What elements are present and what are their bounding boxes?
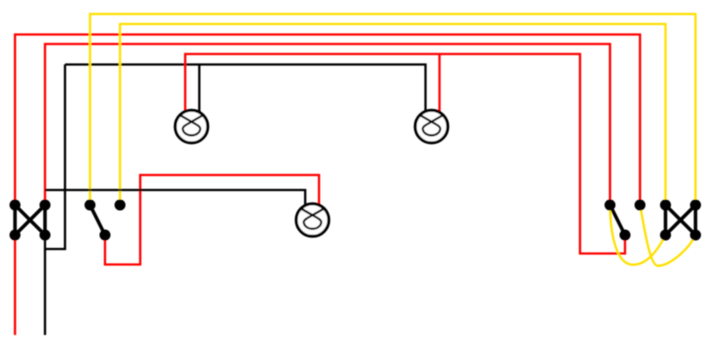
wire: red supply drop from crossover S1 (14, 235, 16, 335)
crossover switch S4 (666, 205, 696, 235)
wire: black neutral rail to upper lamps (65, 65, 426, 118)
two-way switch S2 lever (90, 205, 105, 235)
two-way switch S2 terminals (85, 200, 126, 241)
two-way switch S3 lever (610, 205, 625, 235)
wire: yellow corresponding wire 2 (120, 24, 666, 205)
wire: red branch riser to lamp E2 (438, 54, 440, 117)
wire: black riser to lamp E1 (198, 65, 200, 118)
wire: red conductor to crossover S1 terminal 2 (45, 44, 610, 205)
wire: yellow curved jumper S3 to crossover S4 left (610, 205, 666, 265)
lamp E2 (415, 110, 448, 143)
lamp E1 (175, 110, 208, 143)
wire: red L conductor to crossover S1 terminal 1 (15, 35, 640, 206)
wire: black neutral drop from crossover switch S1 (44, 235, 46, 335)
wire: red switched feed from switch S2 to lamp E3 (105, 175, 319, 265)
crossover switch S1 (15, 205, 45, 235)
two-way switch S3 terminals (605, 200, 646, 241)
wire: black vertical with elbow joining neutral drop (44, 65, 65, 250)
wire: yellow curved jumper S3 to crossover S4 right (640, 205, 696, 266)
crossover switch S1 terminals (10, 200, 51, 241)
crossover switch S4 terminals (660, 200, 701, 241)
wire: yellow corresponding wire 1 (90, 14, 696, 205)
wire: black rail to lamp E3 (45, 190, 305, 210)
lamp E3 (296, 204, 329, 237)
wire: red lamp feed from switch S4 common (185, 54, 625, 254)
